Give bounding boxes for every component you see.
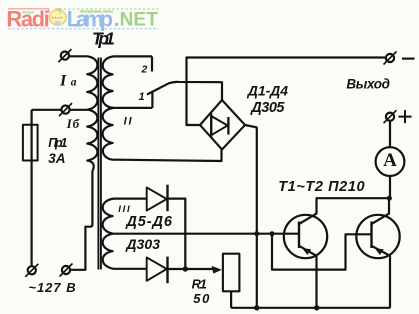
svg-text:Д1-Д4: Д1-Д4	[247, 83, 288, 99]
transistor T1 circle	[284, 215, 327, 258]
wire primary tap Ib	[32, 109, 88, 111]
svg-text:А: А	[383, 150, 397, 171]
svg-text:Электроника, схемы: Электроника, схемы	[80, 9, 114, 14]
transformer winding II bottom section with bottom wire	[103, 108, 222, 161]
wire bridge plus down to bottom rail	[245, 125, 257, 308]
wire center tap to transistor bases	[113, 233, 299, 235]
diode D6 cathode bar	[166, 257, 168, 284]
transistor T2 emitter	[372, 246, 391, 308]
junction dot bridge plus at base wire	[254, 231, 259, 236]
bridge diode triangle	[211, 116, 227, 135]
svg-text:ІІ: ІІ	[124, 115, 133, 127]
svg-text:ІІІ: ІІІ	[118, 204, 130, 215]
bridge diode cathode bar	[227, 117, 229, 135]
svg-text:Д305: Д305	[249, 100, 285, 116]
bridge rectifier D1-D4 diamond	[200, 100, 245, 150]
logo green dashed top border	[55, 8, 159, 10]
diode D5 triangle	[147, 187, 167, 210]
junction dot T1 emitter at bottom rail	[314, 305, 319, 310]
junction dot bridge plus at bottom rail	[254, 305, 259, 310]
terminal output plus	[386, 113, 394, 121]
diode D6 triangle	[147, 257, 167, 280]
switch blade from tap 1 to bridge top	[147, 82, 222, 100]
wire ammeter to collector rail	[389, 176, 391, 198]
wire plus terminal to ammeter	[389, 121, 391, 148]
logo lamp base	[55, 21, 60, 26]
svg-text:Тр1: Тр1	[92, 29, 115, 49]
junction dot ammeter collector rail	[387, 196, 392, 201]
transistor T1 collector	[299, 198, 317, 224]
transistor T2 collector	[372, 198, 390, 224]
svg-text:3А: 3А	[48, 151, 65, 166]
bridge diode anode bar	[210, 113, 212, 138]
wire D6 output to R1 wiper	[168, 268, 213, 270]
transistor T1 base bar	[298, 222, 300, 249]
junction dot base link	[270, 231, 275, 236]
tap 2 tick	[151, 56, 153, 71]
svg-text:R1: R1	[192, 276, 207, 291]
svg-text:Ретро: Ретро	[23, 9, 35, 14]
transformer winding II top section with tap 2 wire	[103, 56, 152, 108]
svg-text:Выход: Выход	[346, 77, 390, 92]
svg-text:NET: NET	[120, 10, 159, 31]
svg-text:1: 1	[139, 91, 145, 103]
tap 1 tick	[151, 92, 153, 108]
wire bottom rail	[231, 307, 390, 309]
logo RadioLamp.NET	[6, 7, 158, 32]
terminal mains right	[62, 266, 70, 274]
wire top rail minus: bridge left corner up and right to output terminal	[187, 58, 387, 126]
terminal primary top	[61, 52, 69, 60]
terminal primary tap Ib	[61, 106, 69, 114]
svg-text:Пр1: Пр1	[48, 136, 67, 150]
transistor T1 emitter	[299, 246, 317, 308]
svg-text:Д303: Д303	[125, 236, 160, 252]
transformer primary winding Ia section with top wire	[69, 56, 97, 109]
transformer Tp1 core	[97, 58, 99, 270]
wire tap 1	[112, 107, 152, 109]
fuse Pr1 wire through	[31, 110, 33, 266]
svg-text:Іб: Іб	[66, 116, 80, 131]
junction dot diodes D5 D6	[183, 266, 188, 271]
wire R1 bottom to rail	[230, 291, 232, 308]
resistor R1 body	[223, 254, 240, 292]
svg-text:Т1~Т2 П210: Т1~Т2 П210	[278, 179, 364, 195]
transistor T2 base bar	[370, 222, 372, 249]
transistor T2 emitter arrow	[375, 248, 384, 255]
svg-text:2: 2	[141, 63, 148, 75]
logo blue dashed bottom border	[8, 28, 159, 30]
svg-text:а: а	[71, 77, 77, 89]
diode D5 cathode bar	[166, 185, 168, 212]
fuse Pr1 body	[23, 125, 38, 161]
transistor T2 circle	[356, 215, 399, 258]
R1 wiper arrowhead	[212, 266, 222, 274]
wire D5 output down to D6 junction	[168, 199, 186, 269]
logo lamp filament hanger	[55, 9, 59, 14]
transistor T1 emitter arrow	[302, 248, 311, 255]
terminal mains left	[28, 266, 36, 274]
transformer winding III bottom group with wire to D6	[103, 234, 147, 269]
terminal output minus	[386, 54, 394, 62]
plus sign	[399, 110, 412, 123]
logo red top border line	[8, 8, 49, 10]
svg-text:50: 50	[193, 291, 210, 306]
transformer primary winding Ib section, straight tail and bottom wire	[70, 110, 97, 270]
svg-text:Д5-Д6: Д5-Д6	[124, 214, 173, 230]
svg-text:~127 В: ~127 В	[28, 280, 75, 295]
minus sign	[402, 57, 415, 59]
wire base link T1 to T2	[272, 234, 372, 270]
transformer winding III top group with wire to D5	[103, 199, 147, 234]
logo lamp bulb icon	[49, 10, 66, 25]
wire collector rail	[316, 197, 390, 199]
ammeter A body	[376, 147, 405, 176]
svg-text:I: I	[59, 73, 67, 90]
